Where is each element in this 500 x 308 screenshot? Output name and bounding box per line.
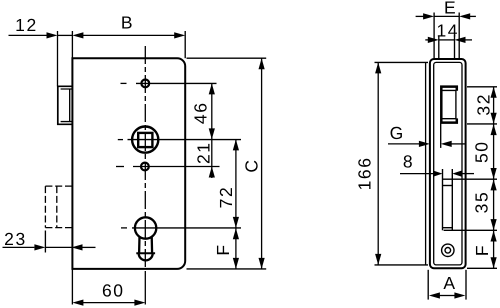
case front edge (side view, behind plate) — [425, 62, 427, 265]
dimension B — [72, 32, 83, 38]
dimension E — [416, 15, 424, 17]
dimension 23 — [3, 246, 35, 248]
extension line G (latch face) — [440, 124, 442, 148]
top hole center ticks + extension — [121, 82, 127, 84]
svg-text:21: 21 — [193, 141, 213, 164]
svg-text:A: A — [443, 273, 456, 293]
faceplate front edge line — [57, 31, 59, 86]
extension line case top right — [187, 57, 267, 59]
svg-text:50: 50 — [472, 140, 492, 163]
svg-text:23: 23 — [4, 229, 27, 249]
svg-text:8: 8 — [403, 152, 414, 172]
dimension 14 — [425, 39, 428, 41]
svg-text:32: 32 — [473, 93, 493, 116]
europrofile keyhole — [135, 217, 156, 238]
svg-text:35: 35 — [472, 191, 492, 214]
extension line latch bottom right — [467, 123, 497, 125]
svg-text:72: 72 — [216, 186, 236, 209]
dimension C line — [261, 58, 263, 269]
cylinder slot — [442, 169, 444, 230]
svg-text:14: 14 — [436, 21, 459, 41]
svg-text:G: G — [390, 123, 405, 143]
extension line case left above — [71, 31, 73, 58]
extension line 60 left — [71, 269, 73, 305]
svg-text:F: F — [472, 244, 492, 256]
faceplate outer outline — [430, 59, 466, 268]
dimension A — [429, 292, 440, 298]
extension line B right — [184, 31, 186, 58]
extension lines A — [427, 270, 429, 300]
latch opening bracket — [441, 87, 457, 123]
screw hole — [442, 244, 454, 256]
svg-text:C: C — [242, 158, 262, 172]
svg-text:12: 12 — [15, 15, 38, 35]
extension line 23 — [44, 231, 46, 253]
svg-text:F: F — [213, 243, 233, 255]
faceplate tab (upper bracket) — [58, 86, 73, 124]
extension lines 14 — [438, 36, 440, 59]
extension line 166 top — [375, 61, 429, 63]
top hole — [141, 80, 149, 88]
faceplate inner outline — [434, 62, 462, 265]
extension line case bottom right — [187, 268, 267, 270]
svg-text:46: 46 — [191, 101, 211, 124]
hidden dashed box (strike pocket) — [45, 186, 71, 228]
dimension G — [388, 143, 419, 145]
lower hole center ticks + extension — [116, 166, 124, 168]
dimension 72 / F line — [235, 139, 237, 269]
vertical centerline — [144, 46, 146, 270]
svg-text:60: 60 — [102, 281, 125, 301]
keyhole center ticks + extension — [121, 227, 127, 229]
dimension 60 — [72, 300, 83, 306]
dimension 46 / 21 line — [211, 83, 213, 178]
dimension 8 — [400, 173, 433, 175]
extension lines E — [433, 13, 435, 59]
dimension 166 — [377, 62, 379, 265]
svg-text:166: 166 — [354, 156, 374, 190]
extension line 60 right (centerline continuation) — [144, 271, 146, 305]
spindle center ticks + extension — [118, 139, 123, 141]
spindle hub U1 (circle with square) — [132, 127, 158, 153]
lock case outline (front view) — [72, 58, 185, 269]
extension line slot top right — [443, 178, 498, 180]
lower hole — [141, 163, 149, 171]
svg-text:E: E — [444, 0, 457, 17]
dimension 12 — [9, 34, 47, 36]
svg-text:B: B — [121, 13, 134, 33]
extension line latch top right — [467, 86, 497, 88]
extension line plate bottom right — [467, 267, 497, 269]
dimension chain 32/50/35/F line — [493, 87, 495, 268]
extension line slot bottom right — [444, 229, 497, 231]
extension line 166 bottom — [375, 264, 429, 266]
